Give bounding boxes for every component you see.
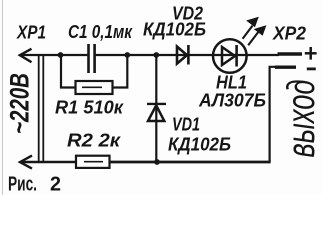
wire: bottom rail from XP1 arrow to R2 (20, 161, 77, 164)
svg-text:Рис.: Рис. (8, 174, 37, 196)
capacitor C1 plates (89, 44, 95, 73)
plug XP1 pin 2 arrow (bottom left) (20, 156, 32, 169)
diode VD1 triangle (cathode up) (148, 105, 164, 121)
LED HL1 circle (213, 39, 247, 73)
scan edge artifact line (2, 0, 4, 195)
LED HL1 cathode bar (235, 45, 238, 67)
svg-text:ХР2: ХР2 (272, 24, 306, 44)
node D: VD1 bottom junction (154, 159, 160, 165)
wire: top rail from XP1 arrow to C1 left plate (20, 54, 87, 56)
svg-text:КД102Б: КД102Б (143, 20, 206, 40)
wire: R1 left branch (61, 55, 76, 88)
resistor R2 power-rating dash (84, 161, 103, 163)
wire: mains double line right conductor (42, 55, 44, 162)
svg-text:R1 510к: R1 510к (55, 98, 124, 118)
wire: top rail from C1 right plate to XP2 pin bar (96, 54, 279, 56)
resistor R1 body (76, 81, 113, 94)
polarity plus sign (305, 47, 317, 60)
node A: C1/R1 left junction (58, 52, 64, 58)
diode VD2 cathode bar (187, 45, 190, 65)
wire: bottom rail from R2 to output vertical (110, 161, 271, 164)
svg-text:ХР1: ХР1 (16, 23, 46, 43)
node B: C1/R1 right junction (124, 52, 130, 58)
svg-text:выход: выход (279, 80, 322, 158)
node C: VD1 top junction (153, 52, 159, 58)
diode VD1 cathode bar (147, 103, 166, 105)
polarity minus sign (307, 68, 316, 71)
LED HL1 emission arrow 2 (248, 26, 265, 45)
socket XP2 minus pin bar (275, 65, 296, 68)
svg-text:VD1: VD1 (172, 115, 200, 135)
wire: mains double line left conductor (38, 55, 40, 162)
diode VD2 triangle (177, 47, 187, 64)
wire: R1 right branch (113, 55, 128, 88)
svg-text:R2 2к: R2 2к (67, 131, 121, 151)
svg-text:C1 0,1мк: C1 0,1мк (68, 22, 133, 42)
LED HL1 triangle (222, 47, 235, 65)
resistor R2 body (76, 156, 110, 168)
LED HL1 emission arrow 1 (243, 18, 258, 39)
svg-text:КД102Б: КД102Б (168, 135, 231, 155)
resistor R1 power-rating dash (82, 86, 102, 88)
wire: minus pin to bottom rail (270, 67, 276, 162)
svg-text:2: 2 (50, 174, 61, 196)
svg-text:АЛ307Б: АЛ307Б (198, 91, 266, 111)
wire: VD1 vertical branch (155, 55, 157, 162)
socket XP2 plus pin bar (278, 52, 303, 55)
svg-text:~220В: ~220В (4, 73, 34, 134)
svg-text:HL1: HL1 (216, 73, 247, 93)
plug XP1 pin 1 arrow (top left) (20, 49, 32, 62)
